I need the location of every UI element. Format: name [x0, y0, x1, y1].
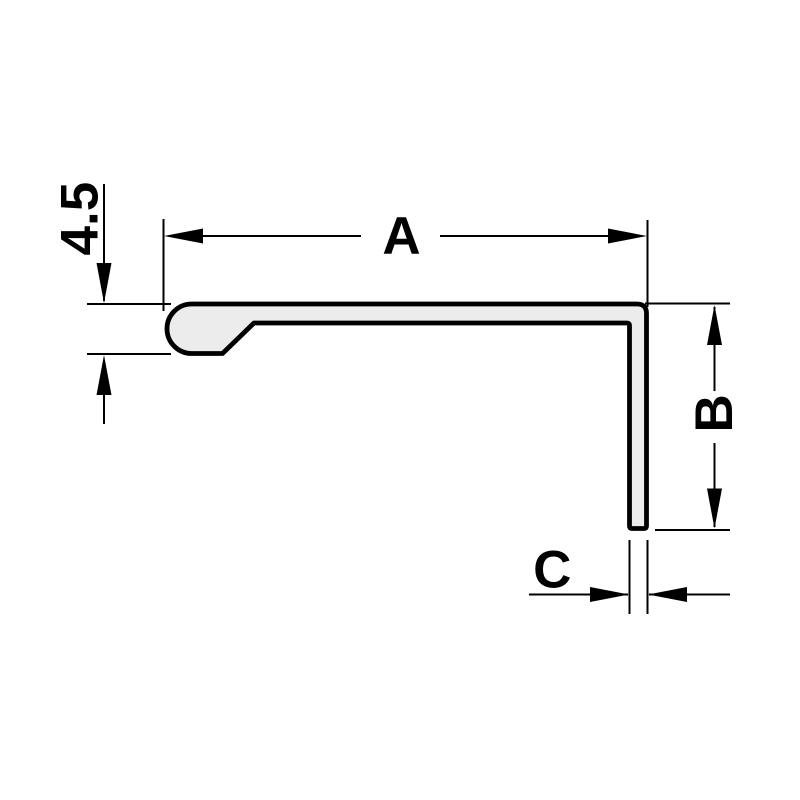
svg-text:A: A [382, 207, 420, 266]
dimension C: right extension line [647, 540, 649, 614]
dimension 4.5: bottom tick line [87, 353, 171, 355]
dimension 4.5: down arrowhead [97, 263, 112, 303]
dimension B: up arrowhead [707, 305, 722, 345]
dimension 4.5: top tick line [87, 303, 171, 305]
dimension A: right arrowhead [608, 229, 647, 244]
dimension B: line upper segment [714, 307, 716, 391]
svg-text:4.5: 4.5 [51, 182, 110, 256]
dimension B: line lower segment [714, 443, 716, 527]
dimension B: bottom extension line [655, 529, 730, 531]
dimension B: down arrowhead [707, 489, 722, 529]
svg-text:B: B [685, 394, 744, 432]
dimension A: line right segment [440, 235, 610, 237]
dimension A: left arrowhead [164, 229, 203, 244]
dimension 4.5: upper leader line [103, 184, 105, 301]
dimension C: line right segment [649, 594, 730, 596]
dimension C: left extension line [629, 540, 631, 614]
dimension 4.5: up arrowhead [97, 355, 112, 395]
profile cross-section (L-shaped edge pull) [167, 304, 647, 529]
dimension A: right extension line [647, 220, 649, 307]
dimension C: left-pointing arrowhead [648, 587, 687, 602]
dimension C: right-pointing arrowhead [590, 587, 629, 602]
svg-text:C: C [533, 541, 571, 600]
dimension A: line left segment [200, 235, 361, 237]
dimension A: left extension line [163, 219, 165, 311]
dimension 4.5: lower leader line [103, 393, 105, 424]
dimension C: line left segment [529, 594, 628, 596]
dimension B: top extension line [645, 303, 730, 305]
